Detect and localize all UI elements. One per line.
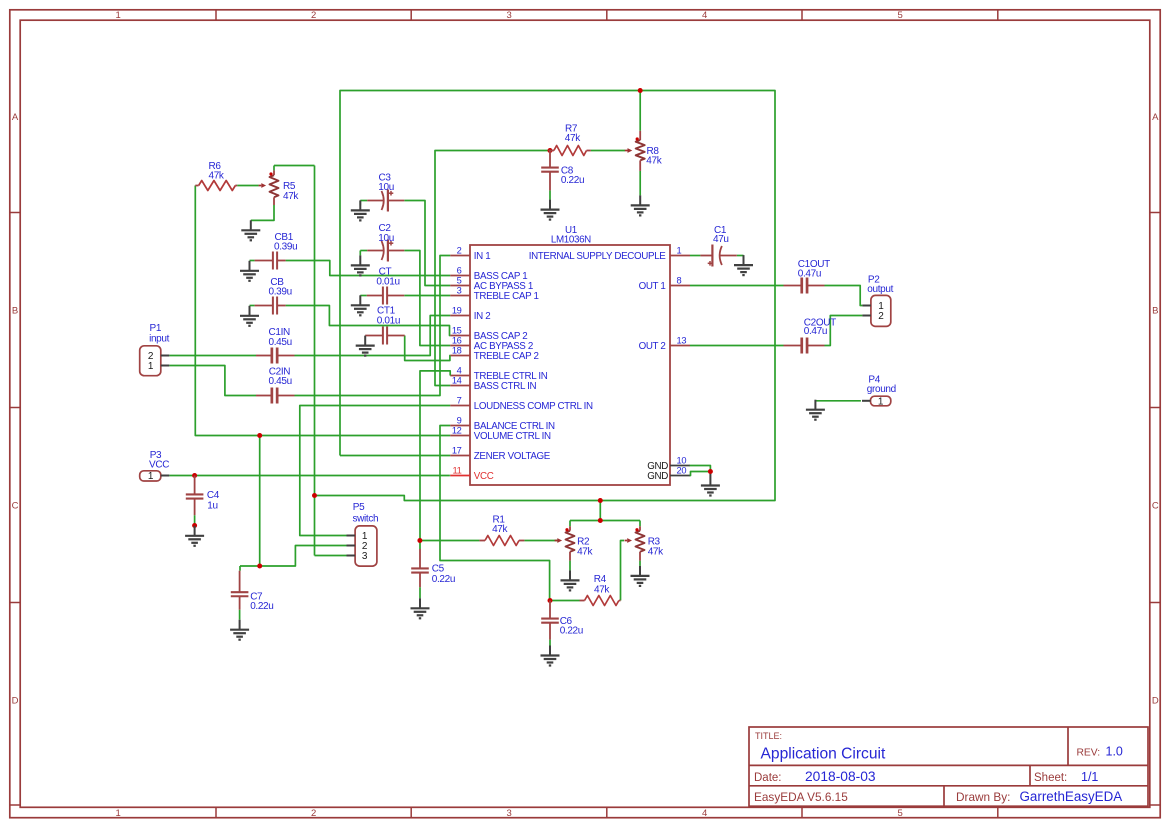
svg-text:2: 2: [457, 246, 462, 256]
potentiometer R2 47k: [555, 526, 594, 560]
svg-text:20: 20: [677, 466, 687, 476]
svg-text:input: input: [149, 334, 170, 345]
svg-text:12: 12: [452, 426, 462, 436]
connector P2 output: [862, 275, 893, 327]
wire: volume net pin 12 to switch pin 2 and C7: [195, 186, 450, 571]
wire: CT1 to pin 18: [405, 336, 451, 361]
capacitor C8 0.22u: [541, 151, 584, 191]
svg-text:output: output: [867, 284, 893, 295]
U1 pin 11 VCC: [450, 475, 470, 477]
junction zener right: [598, 498, 603, 503]
svg-text:0.22u: 0.22u: [250, 601, 273, 612]
svg-text:GarrethEasyEDA: GarrethEasyEDA: [1020, 789, 1123, 804]
svg-text:OUT 1: OUT 1: [639, 281, 666, 292]
wire: C2 to pin 16: [360, 251, 450, 346]
svg-text:Application Circuit: Application Circuit: [761, 746, 886, 763]
svg-text:INTERNAL SUPPLY DECOUPLE: INTERNAL SUPPLY DECOUPLE: [529, 251, 667, 262]
ground C1: [743, 255, 745, 265]
capacitor CB1 0.39u: [255, 232, 298, 270]
junction zener left: [312, 493, 317, 498]
wire: C6 bottom to ground: [549, 640, 551, 646]
svg-text:0.47u: 0.47u: [804, 326, 827, 337]
svg-text:0.01u: 0.01u: [377, 316, 400, 327]
U1 pin 7 LOUDNESS COMP CTRL IN: [450, 405, 470, 407]
ground CB: [249, 306, 251, 316]
wire: OUT1 to C1OUT to P2 pin 1: [690, 286, 862, 306]
capacitor C1OUT 0.47u: [784, 259, 831, 294]
U1 pin 17 ZENER VOLTAGE: [450, 455, 470, 457]
svg-text:VCC: VCC: [474, 471, 494, 482]
potentiometer R5 47k: [259, 170, 300, 205]
junction top rail / R8: [638, 88, 643, 93]
wire: C3 to pin 5: [360, 201, 450, 286]
svg-text:47k: 47k: [648, 546, 664, 557]
U1 pin 15 BASS CAP 2: [450, 335, 470, 337]
ground C5: [419, 598, 421, 608]
U1 pin 20 GND: [670, 475, 690, 477]
capacitor C2 10u polarized: [367, 223, 404, 262]
junction R4 left / C6: [548, 598, 553, 603]
ground CB1: [249, 261, 251, 271]
svg-text:4: 4: [702, 808, 707, 819]
wire: P1 pin1 to C2IN to pin 2: [169, 256, 450, 396]
wire: C4 bottom to ground: [194, 515, 196, 526]
junction R2 R3 rail: [598, 518, 603, 523]
svg-text:47k: 47k: [565, 133, 581, 144]
resistor R4 47k: [580, 574, 621, 605]
svg-text:VOLUME CTRL IN: VOLUME CTRL IN: [474, 431, 551, 442]
wire: R8 bottom to ground: [639, 171, 641, 196]
svg-text:18: 18: [452, 346, 462, 356]
svg-text:0.39u: 0.39u: [269, 287, 292, 298]
junction C4 top: [192, 473, 197, 478]
wire: OUT2 to C2OUT to P2 pin 2: [690, 316, 862, 346]
svg-text:47u: 47u: [713, 234, 729, 245]
svg-text:1: 1: [116, 808, 121, 819]
svg-text:15: 15: [452, 326, 462, 336]
svg-text:10: 10: [677, 456, 687, 466]
wire: loudness net pin 7 to switch pin 1: [300, 406, 450, 536]
svg-text:IN 1: IN 1: [474, 251, 491, 262]
svg-text:GND: GND: [647, 471, 668, 482]
svg-text:2: 2: [878, 311, 884, 322]
ground C7: [239, 620, 241, 630]
capacitor CB 0.39u: [255, 277, 292, 315]
connector P1 input: [140, 323, 170, 375]
svg-text:2018-08-03: 2018-08-03: [805, 769, 876, 784]
wire: R2 bottom to ground: [569, 561, 571, 571]
connector P3 VCC: [140, 450, 170, 482]
svg-text:5: 5: [898, 10, 903, 21]
svg-text:13: 13: [677, 336, 687, 346]
svg-text:10u: 10u: [378, 182, 394, 193]
U1 pin 13 OUT 2: [670, 345, 690, 347]
svg-text:1u: 1u: [207, 500, 217, 511]
svg-text:A: A: [12, 112, 19, 123]
svg-text:47k: 47k: [209, 171, 225, 182]
svg-text:VCC: VCC: [149, 459, 169, 470]
svg-text:0.22u: 0.22u: [560, 626, 583, 637]
svg-text:0.47u: 0.47u: [798, 268, 821, 279]
svg-text:C: C: [1152, 501, 1159, 512]
connector P4 ground: [862, 374, 896, 407]
title block: [749, 727, 1148, 806]
resistor R1 47k: [479, 514, 524, 545]
wire: VCC net P3 to pin 11 with C4: [169, 475, 450, 477]
junction C7 top: [257, 564, 262, 569]
U1 pin 10 GND: [670, 465, 690, 467]
capacitor C1IN 0.45u: [256, 327, 295, 363]
svg-text:0.45u: 0.45u: [269, 337, 292, 348]
svg-text:TITLE:: TITLE:: [755, 731, 782, 741]
svg-text:1: 1: [148, 471, 154, 482]
U1 pin 6 BASS CAP 1: [450, 275, 470, 277]
ground R2: [569, 570, 571, 580]
svg-text:0.22u: 0.22u: [432, 574, 455, 585]
svg-text:ZENER VOLTAGE: ZENER VOLTAGE: [474, 451, 551, 462]
wire: CB1 to pin 6: [250, 261, 451, 276]
svg-text:47k: 47k: [577, 546, 593, 557]
svg-text:B: B: [12, 306, 18, 317]
svg-text:A: A: [1152, 112, 1159, 123]
ground P4: [814, 400, 816, 410]
svg-text:LM1036N: LM1036N: [551, 235, 591, 246]
svg-text:D: D: [12, 696, 19, 707]
svg-text:17: 17: [452, 446, 462, 456]
svg-text:IN 2: IN 2: [474, 311, 491, 322]
capacitor C5 0.22u: [411, 549, 455, 587]
svg-text:2: 2: [311, 808, 316, 819]
resistor R6 47k: [195, 161, 237, 191]
capacitor C2OUT 0.47u: [784, 317, 837, 353]
junction GND pins: [708, 469, 713, 474]
svg-text:16: 16: [452, 336, 462, 346]
capacitor CT 0.01u: [367, 267, 405, 305]
svg-text:ground: ground: [867, 384, 896, 395]
svg-text:47k: 47k: [646, 155, 662, 166]
svg-text:0.45u: 0.45u: [269, 376, 292, 387]
svg-text:14: 14: [452, 376, 462, 386]
svg-text:7: 7: [457, 396, 462, 406]
svg-text:0.01u: 0.01u: [376, 277, 399, 288]
U1 pin 14 BASS CTRL IN: [450, 385, 470, 387]
svg-text:47k: 47k: [283, 191, 299, 202]
wire: bass ctrl net (R7 row to pin 14): [435, 151, 625, 386]
svg-text:4: 4: [702, 10, 707, 21]
junction volume row: [257, 433, 262, 438]
resistor R7 47k: [549, 124, 591, 156]
svg-text:10u: 10u: [378, 233, 394, 244]
wire: C7 bottom to ground: [239, 610, 241, 620]
wire: P1 pin2 to C1IN to pin 19: [169, 316, 450, 356]
svg-text:6: 6: [457, 266, 462, 276]
ground C2: [359, 255, 361, 265]
svg-text:3: 3: [457, 286, 462, 296]
svg-text:2: 2: [311, 10, 316, 21]
ground CT1: [364, 336, 366, 346]
wire: pin 1 to C1 to ground: [690, 255, 744, 257]
wire: R6 to R5 wiper: [237, 185, 259, 187]
wire: balance net pin 9 to R4 and R3 wiper: [440, 426, 624, 601]
ground CT: [359, 295, 361, 305]
U1 pin 18 TREBLE CAP 2: [450, 355, 470, 357]
wire: C5 bottom to ground: [419, 587, 421, 598]
svg-text:BASS CTRL IN: BASS CTRL IN: [474, 381, 537, 392]
wire: C8 bottom to ground: [549, 190, 551, 199]
svg-text:switch: switch: [353, 513, 379, 524]
svg-text:OUT 2: OUT 2: [639, 341, 666, 352]
svg-text:C: C: [12, 501, 19, 512]
svg-text:1/1: 1/1: [1081, 770, 1098, 784]
U1 pin 16 AC BYPASS 2: [450, 345, 470, 347]
U1 pin 5 AC BYPASS 1: [450, 285, 470, 287]
capacitor C4 1u: [186, 476, 220, 516]
ground R5: [250, 220, 252, 230]
svg-text:TREBLE CAP 2: TREBLE CAP 2: [474, 351, 539, 362]
capacitor C3 10u polarized: [367, 173, 404, 212]
ground R3: [639, 566, 641, 576]
svg-text:1: 1: [116, 10, 121, 21]
wire: R5 bottom to ground: [251, 205, 274, 220]
ground R8: [639, 195, 641, 205]
svg-text:1.0: 1.0: [1106, 745, 1123, 759]
ground C3: [359, 200, 361, 210]
U1 pin 19 IN 2: [450, 315, 470, 317]
wire: R3 bottom to ground: [639, 561, 641, 566]
svg-text:0.39u: 0.39u: [274, 242, 297, 253]
svg-text:9: 9: [457, 416, 462, 426]
svg-text:1: 1: [878, 396, 884, 407]
svg-text:REV:: REV:: [1077, 748, 1101, 759]
potentiometer R8 47k: [625, 131, 663, 171]
svg-text:4: 4: [457, 366, 462, 376]
svg-text:D: D: [1152, 696, 1159, 707]
wire: CB to pin 15: [250, 306, 451, 336]
potentiometer R3 47k: [625, 526, 665, 560]
connector P5 switch: [347, 502, 379, 566]
svg-text:B: B: [1152, 306, 1158, 317]
ground C4: [194, 526, 196, 536]
svg-text:3: 3: [362, 551, 368, 562]
svg-text:Sheet:: Sheet:: [1034, 772, 1067, 784]
U1 pin 12 VOLUME CTRL IN: [450, 435, 470, 437]
capacitor C2IN 0.45u: [256, 367, 295, 404]
U1 pin 1 INTERNAL SUPPLY DECOUPLE: [670, 255, 690, 257]
U1 pin 2 IN 1: [450, 255, 470, 257]
svg-text:8: 8: [677, 276, 682, 286]
wire: P4 to ground: [815, 400, 861, 402]
svg-text:47k: 47k: [492, 524, 508, 535]
svg-text:5: 5: [898, 808, 903, 819]
wire: treble ctrl net pin 4 to C5 and R1: [420, 371, 558, 549]
svg-text:1: 1: [677, 246, 682, 256]
svg-text:19: 19: [452, 306, 462, 316]
wire: CT to pin 3: [360, 295, 450, 297]
U1 pin 8 OUT 1: [670, 285, 690, 287]
svg-text:Drawn By:: Drawn By:: [956, 790, 1010, 804]
ground C6: [549, 646, 551, 656]
capacitor CT1 0.01u: [365, 306, 405, 345]
svg-text:EasyEDA V5.6.15: EasyEDA V5.6.15: [754, 790, 848, 804]
U1 pin 4 TREBLE CTRL IN: [450, 375, 470, 377]
svg-text:3: 3: [507, 10, 512, 21]
svg-text:LOUDNESS COMP CTRL IN: LOUDNESS COMP CTRL IN: [474, 401, 593, 412]
capacitor C7 0.22u: [231, 571, 274, 613]
capacitor C1 47u polarized: [700, 225, 736, 267]
svg-text:5: 5: [457, 276, 462, 286]
wire: GND pins 10 20 to ground: [690, 466, 711, 476]
svg-text:TREBLE CAP 1: TREBLE CAP 1: [474, 291, 539, 302]
svg-text:Date:: Date:: [754, 772, 782, 784]
capacitor C6 0.22u: [541, 601, 583, 640]
wire: zener voltage net (top rail, pin 17, pots supply): [274, 91, 775, 556]
junction R7 left / C8: [548, 148, 553, 153]
U1 pin 9 BALANCE CTRL IN: [450, 425, 470, 427]
junction C4 ground: [192, 523, 197, 528]
ground IC GND: [709, 476, 711, 486]
op-amp/IC U1 LM1036N body: [470, 245, 670, 485]
svg-text:47k: 47k: [594, 584, 610, 595]
U1 pin 3 TREBLE CAP 1: [450, 295, 470, 297]
ground C8: [549, 200, 551, 210]
svg-text:3: 3: [507, 808, 512, 819]
svg-text:11: 11: [453, 466, 462, 476]
svg-text:0.22u: 0.22u: [561, 175, 584, 186]
svg-text:1: 1: [148, 361, 154, 372]
svg-text:P5: P5: [353, 502, 365, 513]
junction R1 left: [417, 538, 422, 543]
